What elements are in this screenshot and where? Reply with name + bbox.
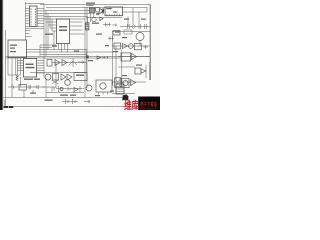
svg-text:www.dzsc.com: www.dzsc.com [140, 107, 157, 111]
svg-text:维库: 维库 [124, 99, 139, 110]
